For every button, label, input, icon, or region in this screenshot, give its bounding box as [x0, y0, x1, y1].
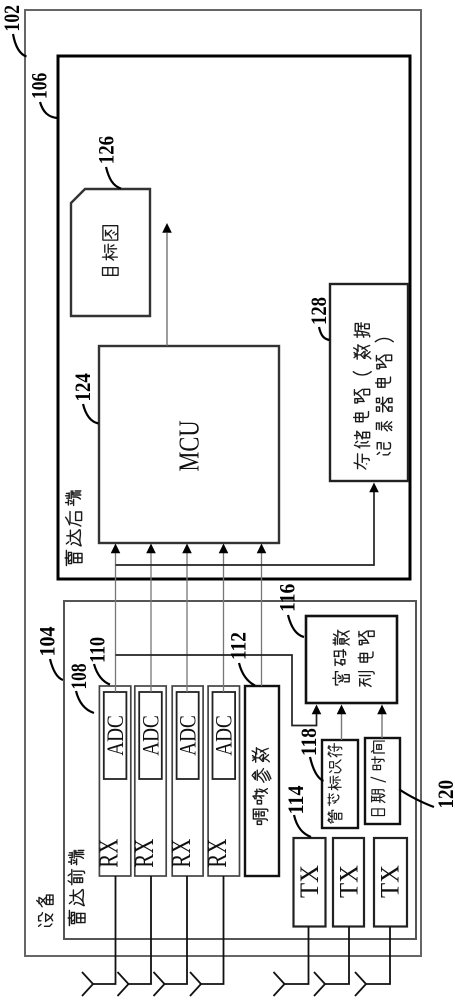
TX antenna symbol 2	[314, 972, 325, 996]
svg-text:ADC: ADC	[212, 715, 237, 756]
text die identifier	[328, 810, 342, 823]
svg-text:104: 104	[35, 627, 60, 657]
RX chain box 2 (108)	[135, 686, 166, 876]
TX antenna symbol 1	[274, 972, 285, 996]
svg-text:RX: RX	[128, 839, 159, 868]
RX antenna wire 3	[165, 876, 188, 984]
RX chain box 3 (108)	[172, 686, 203, 876]
wire from ADC1 to MCU	[115, 553, 117, 692]
RX antenna wire 2	[129, 876, 152, 984]
svg-text:118: 118	[296, 728, 321, 756]
text crypto hash line2	[359, 672, 375, 687]
wire die-id 118 to hash 116	[341, 714, 343, 740]
date/time box 120	[365, 738, 400, 824]
ADC box 1 (110)	[104, 692, 127, 779]
leader 128	[319, 327, 330, 340]
TX antenna symbol 3	[355, 972, 366, 996]
ADC box 3 (110)	[177, 692, 199, 779]
leader 124	[83, 404, 99, 424]
arrowhead into MCU 3	[182, 544, 192, 554]
svg-text:TX: TX	[376, 865, 405, 898]
svg-text:110: 110	[85, 637, 110, 663]
text radar back-end	[65, 550, 82, 565]
text crypto hash line1	[333, 672, 349, 685]
leader 120	[400, 790, 435, 808]
TX box 3	[374, 838, 407, 927]
RX antenna wire 4	[201, 876, 224, 984]
memory circuit box 128	[330, 284, 408, 481]
svg-text:114: 114	[283, 786, 308, 815]
MCU box U124	[99, 346, 279, 543]
leader 126	[106, 167, 121, 189]
leader 110	[94, 664, 110, 685]
RX chain box 1 (108)	[99, 686, 130, 876]
leader 102	[13, 34, 27, 57]
MCU output arrow to target map	[166, 233, 168, 346]
text shebei (device)	[39, 913, 53, 927]
crypto hash circuit box 116	[306, 616, 397, 703]
leader 104	[50, 659, 63, 680]
radar back-end box 106	[58, 56, 410, 579]
RX antenna wire 1	[93, 876, 116, 984]
svg-text:RX: RX	[92, 839, 123, 868]
svg-text:108: 108	[66, 664, 91, 690]
leader 106	[40, 102, 57, 118]
svg-text:MCU: MCU	[175, 421, 206, 472]
svg-text:112: 112	[226, 632, 251, 660]
RX antenna symbol 2	[118, 972, 129, 996]
wire from chirp params to MCU	[261, 553, 263, 686]
RX antenna symbol 4	[190, 972, 201, 996]
wire from ADC4 to MCU	[223, 553, 225, 692]
wire tap to hash circuit 116	[116, 655, 317, 726]
svg-text:124: 124	[70, 373, 95, 401]
svg-text:TX: TX	[335, 865, 364, 898]
leader 114	[294, 815, 311, 837]
svg-text:ADC: ADC	[103, 715, 128, 756]
die identifier box 118	[322, 740, 358, 828]
leader 118	[310, 757, 324, 781]
text chirp parameters	[253, 809, 267, 824]
wire tap to memory circuit 128	[116, 492, 375, 565]
TX antenna wire 3	[366, 927, 390, 985]
wire date/time 120 to hash 116	[381, 714, 383, 738]
svg-text:126: 126	[93, 136, 118, 164]
RX antenna symbol 1	[82, 972, 93, 996]
chirp parameters box 112	[245, 686, 279, 876]
ADC box 2 (110)	[139, 692, 162, 779]
svg-text:ADC: ADC	[176, 715, 201, 756]
svg-text:ADC: ADC	[138, 715, 163, 756]
svg-text:106: 106	[26, 73, 51, 99]
svg-text:TX: TX	[295, 865, 324, 898]
RX antenna symbol 3	[154, 972, 165, 996]
RX chain box 4 (108)	[208, 686, 239, 876]
arrowhead into MCU 1	[111, 544, 121, 554]
svg-text:102: 102	[0, 5, 24, 32]
target map box 126	[71, 189, 150, 316]
text date/time	[372, 809, 385, 816]
TX antenna wire 2	[325, 927, 349, 985]
svg-text:RX: RX	[201, 839, 232, 868]
text target map	[103, 268, 119, 276]
arrowhead into MCU 2	[146, 544, 156, 554]
leader 112	[239, 663, 255, 686]
svg-text:116: 116	[274, 584, 299, 612]
text storage circuit line1	[354, 454, 369, 469]
ADC box 4 (110)	[213, 692, 236, 779]
svg-text:128: 128	[306, 297, 331, 325]
wire from ADC2 to MCU	[150, 553, 152, 692]
svg-text:120: 120	[433, 780, 455, 809]
arrowhead into MCU 4	[219, 544, 229, 554]
text storage circuit line2	[377, 443, 390, 455]
TX antenna wire 1	[285, 927, 309, 985]
arrowhead into MCU 5	[257, 544, 267, 554]
svg-text:RX: RX	[165, 839, 196, 868]
text radar front-end	[68, 910, 85, 925]
radar front-end box 104	[64, 601, 416, 939]
leader 108	[76, 691, 94, 713]
TX box 1	[294, 838, 326, 927]
wire from ADC3 to MCU	[186, 553, 188, 692]
leader 116	[288, 615, 304, 637]
TX box 2	[333, 838, 364, 927]
